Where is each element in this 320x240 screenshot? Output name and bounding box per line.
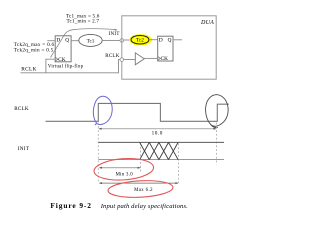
RCLK waveform <box>46 103 229 121</box>
svg-text:Virtual flip-flop: Virtual flip-flop <box>48 65 84 70</box>
wire Tc2 to DUA FF D <box>149 39 158 41</box>
dashed reference line at second edge <box>216 123 218 165</box>
svg-text:Figure 9-2: Figure 9-2 <box>50 201 92 210</box>
DUA block box <box>122 16 216 79</box>
delay ellipse Tc1 <box>79 34 102 46</box>
svg-text:Q: Q <box>65 37 69 43</box>
svg-text:RCLK: RCLK <box>21 67 36 73</box>
svg-text:RCLK: RCLK <box>14 106 29 112</box>
svg-text:Tc2: Tc2 <box>136 38 144 44</box>
svg-text:CK: CK <box>58 57 66 63</box>
yellow highlighter blob over Tc2 <box>129 34 152 45</box>
svg-text:Tc1_min = 2.7: Tc1_min = 2.7 <box>67 19 100 25</box>
measure arrow Min 3.0 <box>99 167 141 169</box>
svg-text:INIT: INIT <box>18 146 30 152</box>
red hand-drawn ellipse around Min 3.0 <box>93 157 154 182</box>
dashed reference line at first edge <box>97 123 99 184</box>
wire buffer to CK <box>144 57 157 59</box>
wire junction to buffer <box>124 59 136 61</box>
svg-text:D: D <box>56 37 60 43</box>
INIT uncertainty crosshatch <box>140 142 178 159</box>
DUA flip-flop box <box>158 36 173 61</box>
dark hand-drawn circle on second rising edge <box>206 95 229 128</box>
period measure arrow 10.0 <box>98 128 216 130</box>
wire Q output to Tc1 ellipse <box>71 40 79 42</box>
svg-text:RCLK: RCLK <box>105 54 119 59</box>
clock wedge (virtual FF) <box>55 57 58 61</box>
svg-text:Tc1: Tc1 <box>87 38 95 44</box>
leader line from Tc1 values text to INIT net (arrow) <box>51 29 118 58</box>
svg-text:Input path delay specification: Input path delay specifications. <box>100 203 188 210</box>
svg-text:10.0: 10.0 <box>152 130 163 136</box>
red hand-drawn ellipse around Max 6.2 <box>108 179 174 199</box>
svg-text:DUA: DUA <box>200 20 214 26</box>
wire Tc1 to DUA boundary <box>102 39 120 41</box>
INIT bottom rail <box>98 159 224 161</box>
label Tc1_max/Tc1_min values <box>66 13 100 24</box>
wire Q output stub (DUA FF) <box>173 39 182 41</box>
svg-text:Q: Q <box>168 37 172 43</box>
wire INIT junction to Tc2 <box>124 39 131 41</box>
measure arrow Max 6.2 <box>99 182 179 184</box>
INIT top rail <box>98 141 224 143</box>
wire RCLK horizontal <box>21 60 121 73</box>
port junction circle (INIT) <box>120 39 124 43</box>
wire D input stub (virtual FF) <box>47 40 55 42</box>
blue hand-drawn circle on first rising edge <box>93 96 112 125</box>
svg-text:Min 3.0: Min 3.0 <box>116 172 134 177</box>
svg-text:CK: CK <box>161 56 169 62</box>
dashed reference line at data-change start <box>139 143 141 172</box>
clock wedge (DUA FF) <box>158 56 161 60</box>
svg-text:D: D <box>159 37 163 43</box>
svg-text:Tck2q_min = 0.5: Tck2q_min = 0.5 <box>14 47 54 53</box>
virtual flip-flop box <box>55 36 71 62</box>
svg-text:Max 6.2: Max 6.2 <box>134 188 153 193</box>
svg-text:INIT: INIT <box>108 32 119 37</box>
port junction circle (RCLK) <box>120 58 124 62</box>
wire RCLK to virtual FF clock <box>46 59 55 73</box>
figure caption <box>50 201 188 210</box>
clock buffer <box>135 53 144 65</box>
delay ellipse Tc2 <box>131 35 149 44</box>
label Tck2q values <box>14 42 55 53</box>
dashed reference line at data-change end <box>178 144 180 184</box>
